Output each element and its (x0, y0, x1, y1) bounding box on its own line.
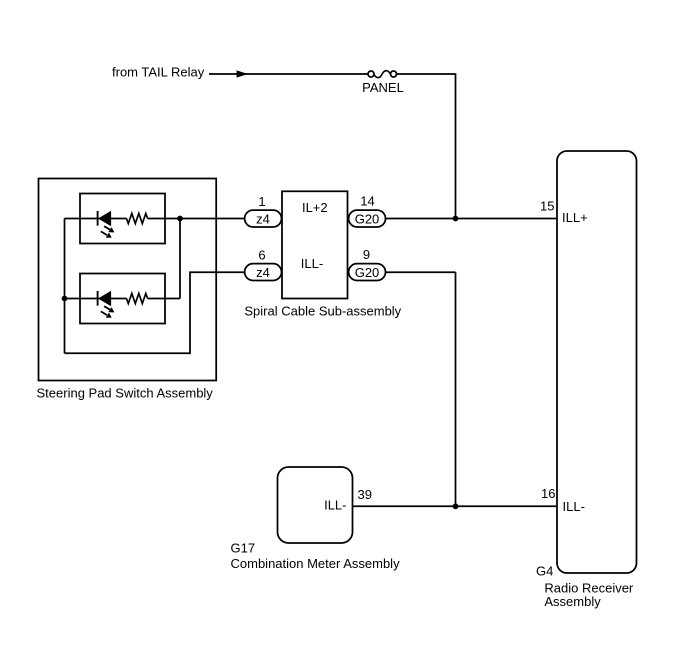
svg-text:9: 9 (363, 247, 370, 262)
wire from R2 to junction riser (148, 298, 180, 300)
connector z4 pin 6 (245, 264, 282, 281)
wire ILL- bottom run from meter to radio pin 16 (353, 505, 558, 507)
connector G20 pin 9 (349, 264, 386, 281)
svg-text:z4: z4 (256, 265, 270, 280)
connector G20 pin 14 (349, 210, 386, 227)
svg-text:6: 6 (258, 247, 265, 262)
svg-text:G20: G20 (355, 211, 380, 226)
wire trunk down from fuse corner to ILL+ node (455, 73, 457, 218)
svg-text:15: 15 (540, 199, 554, 214)
svg-text:Spiral Cable Sub-assembly: Spiral Cable Sub-assembly (244, 304, 401, 319)
combination meter assembly box (278, 467, 353, 543)
wire ILL- from G20-9 to corner (386, 271, 456, 273)
spiral cable sub-assembly box (282, 191, 348, 298)
junction node ILL- (453, 503, 459, 509)
wire common return jog to z4 pin 6 (65, 272, 245, 353)
inner box LED unit 1 (80, 194, 165, 244)
wire riser joining LED2 output to ILL+ branch (179, 219, 181, 299)
junction node on ILL+ branch (177, 216, 183, 222)
svg-text:16: 16 (541, 486, 555, 501)
svg-text:Steering Pad Switch Assembly: Steering Pad Switch Assembly (37, 385, 214, 400)
svg-text:PANEL: PANEL (362, 80, 404, 95)
wire left common vertical (64, 219, 66, 354)
connector z4 pin 1 (245, 210, 282, 227)
svg-text:G4: G4 (536, 563, 553, 578)
svg-text:z4: z4 (256, 211, 270, 226)
steering pad switch assembly outer box (39, 179, 217, 381)
arrowhead on feed wire (237, 70, 249, 77)
junction node ILL+ (453, 216, 459, 222)
wire from TAIL relay to fuse (209, 73, 368, 75)
LED D2 with resistor R2 (65, 291, 148, 318)
svg-text:Assembly: Assembly (544, 594, 601, 609)
svg-text:G17: G17 (231, 540, 256, 555)
radio receiver assembly box (557, 151, 637, 573)
wire from R1 to connector z4 pin 1 (148, 218, 245, 220)
svg-text:1: 1 (258, 194, 265, 209)
inner box LED unit 2 (80, 274, 165, 324)
svg-text:ILL-: ILL- (324, 498, 346, 513)
svg-text:ILL+: ILL+ (562, 210, 588, 225)
svg-text:ILL-: ILL- (563, 499, 585, 514)
svg-text:G20: G20 (355, 265, 380, 280)
svg-text:IL+2: IL+2 (302, 200, 328, 215)
svg-text:from TAIL Relay: from TAIL Relay (112, 65, 205, 80)
junction node on common return (62, 296, 68, 302)
wire fuse to corner (397, 73, 456, 75)
wire ILL- vertical drop (455, 272, 457, 506)
wire ILL+ from G20-14 to radio pin 15 (386, 218, 558, 220)
svg-text:Combination Meter Assembly: Combination Meter Assembly (231, 556, 401, 571)
fuse PANEL (368, 71, 397, 78)
LED D1 with resistor R1 (65, 211, 148, 238)
svg-text:39: 39 (358, 487, 372, 502)
svg-text:ILL-: ILL- (301, 256, 323, 271)
svg-text:14: 14 (360, 194, 374, 209)
